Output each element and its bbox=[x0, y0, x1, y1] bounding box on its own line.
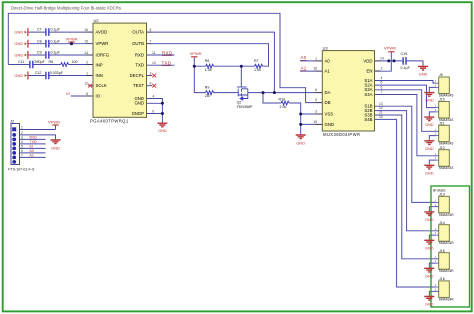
svg-text:R6: R6 bbox=[205, 59, 210, 63]
svg-text:4: 4 bbox=[21, 140, 23, 144]
svg-text:IO: IO bbox=[66, 92, 70, 96]
svg-text:GND: GND bbox=[296, 141, 305, 146]
svg-text:GND: GND bbox=[14, 41, 23, 46]
svg-text:SMA4S4S: SMA4S4S bbox=[439, 118, 454, 122]
svg-text:GND: GND bbox=[425, 170, 434, 175]
svg-text:GND: GND bbox=[51, 145, 60, 150]
svg-text:8: 8 bbox=[315, 88, 317, 92]
svg-text:MUX36D04IPWR: MUX36D04IPWR bbox=[323, 132, 360, 137]
svg-text:INN: INN bbox=[96, 73, 103, 78]
svg-text:15: 15 bbox=[313, 120, 317, 124]
svg-text:1.0k: 1.0k bbox=[254, 68, 261, 72]
svg-text:2.0k: 2.0k bbox=[280, 105, 287, 109]
svg-text:VDD: VDD bbox=[363, 58, 372, 63]
svg-text:INP: INP bbox=[96, 63, 103, 68]
svg-text:16: 16 bbox=[84, 28, 88, 32]
svg-text:C11: C11 bbox=[18, 60, 24, 64]
svg-text:0.1µF: 0.1µF bbox=[51, 28, 61, 32]
svg-text:C19: C19 bbox=[401, 52, 408, 56]
svg-text:2: 2 bbox=[21, 131, 23, 135]
svg-text:3: 3 bbox=[21, 136, 23, 140]
svg-text:RXD: RXD bbox=[30, 136, 38, 140]
svg-text:16: 16 bbox=[313, 67, 317, 71]
svg-text:2: 2 bbox=[381, 67, 383, 71]
svg-text:1.0k: 1.0k bbox=[205, 68, 212, 72]
svg-text:J10: J10 bbox=[439, 98, 445, 102]
svg-text:7: 7 bbox=[381, 90, 383, 94]
svg-text:11: 11 bbox=[152, 51, 156, 55]
svg-text:1: 1 bbox=[315, 57, 317, 61]
svg-text:A0: A0 bbox=[325, 58, 331, 63]
svg-text:J9: J9 bbox=[439, 73, 443, 77]
svg-text:GND: GND bbox=[419, 71, 428, 76]
svg-text:DECPL: DECPL bbox=[130, 73, 145, 78]
svg-text:DA: DA bbox=[325, 90, 331, 95]
svg-text:0.033µF: 0.033µF bbox=[50, 71, 64, 75]
svg-text:1: 1 bbox=[86, 71, 88, 75]
svg-text:12: 12 bbox=[84, 82, 88, 86]
svg-text:IO: IO bbox=[96, 93, 101, 98]
svg-text:SMA4S4S: SMA4S4S bbox=[439, 166, 454, 170]
svg-text:100: 100 bbox=[72, 60, 78, 64]
svg-text:6: 6 bbox=[381, 85, 383, 89]
svg-text:2: 2 bbox=[86, 60, 88, 64]
svg-text:5: 5 bbox=[21, 145, 23, 149]
svg-text:GND: GND bbox=[425, 273, 434, 278]
svg-text:5: 5 bbox=[150, 28, 152, 32]
svg-text:EN: EN bbox=[367, 68, 373, 73]
svg-text:14: 14 bbox=[84, 51, 88, 55]
svg-text:6: 6 bbox=[152, 109, 154, 113]
svg-text:SMA4S4R: SMA4S4R bbox=[439, 241, 455, 245]
svg-text:C7: C7 bbox=[37, 28, 42, 32]
svg-text:S4B: S4B bbox=[364, 117, 372, 122]
svg-text:U2: U2 bbox=[94, 18, 100, 23]
svg-text:TXD: TXD bbox=[162, 61, 172, 66]
svg-text:15: 15 bbox=[84, 40, 88, 44]
svg-text:TXD: TXD bbox=[135, 63, 144, 68]
svg-text:GND: GND bbox=[425, 146, 434, 151]
svg-text:3: 3 bbox=[315, 110, 317, 114]
svg-text:0.1µF: 0.1µF bbox=[401, 66, 411, 70]
svg-text:GND: GND bbox=[325, 122, 335, 127]
svg-text:GND: GND bbox=[158, 128, 167, 133]
svg-text:A1: A1 bbox=[301, 65, 307, 70]
svg-text:TEST: TEST bbox=[133, 83, 144, 88]
svg-text:VPWR: VPWR bbox=[48, 120, 60, 125]
svg-text:4: 4 bbox=[152, 94, 154, 98]
svg-text:287: 287 bbox=[205, 94, 211, 98]
svg-text:U3: U3 bbox=[323, 46, 329, 51]
svg-text:VPWR: VPWR bbox=[66, 37, 78, 42]
svg-text:VPWR: VPWR bbox=[384, 45, 396, 50]
svg-text:RXD: RXD bbox=[135, 52, 144, 57]
svg-text:J15: J15 bbox=[439, 249, 445, 253]
svg-text:S4A: S4A bbox=[364, 92, 372, 97]
svg-text:A0: A0 bbox=[301, 55, 307, 60]
svg-text:9: 9 bbox=[150, 82, 152, 86]
svg-text:C9: C9 bbox=[37, 51, 42, 55]
svg-text:GND: GND bbox=[425, 302, 434, 307]
svg-text:Direct-Drive Half-Bridge Multi: Direct-Drive Half-Bridge Multiplexing Fo… bbox=[11, 5, 121, 10]
svg-text:OUTA: OUTA bbox=[132, 30, 144, 35]
svg-text:0.1µF: 0.1µF bbox=[51, 39, 61, 43]
svg-text:SMA4S4S: SMA4S4S bbox=[439, 142, 454, 146]
svg-text:VPWR: VPWR bbox=[96, 41, 109, 46]
svg-text:R8: R8 bbox=[49, 60, 54, 64]
svg-text:OUTB: OUTB bbox=[132, 41, 144, 46]
svg-text:8: 8 bbox=[86, 92, 88, 96]
svg-text:J13: J13 bbox=[439, 193, 445, 197]
svg-text:GNDP: GNDP bbox=[132, 111, 145, 116]
svg-text:A1: A1 bbox=[325, 69, 331, 74]
svg-text:5: 5 bbox=[381, 81, 383, 85]
svg-text:DB: DB bbox=[325, 100, 331, 105]
svg-text:1: 1 bbox=[21, 126, 23, 130]
svg-text:FDN358P: FDN358P bbox=[237, 105, 253, 109]
svg-text:SMA4S4R: SMA4S4R bbox=[439, 297, 455, 301]
svg-text:10: 10 bbox=[152, 61, 156, 65]
svg-text:6: 6 bbox=[21, 149, 23, 153]
svg-text:J2: J2 bbox=[9, 119, 15, 123]
svg-text:GND: GND bbox=[14, 73, 23, 78]
svg-text:0.1µF: 0.1µF bbox=[51, 51, 61, 55]
svg-text:SMA4S4S: SMA4S4S bbox=[439, 94, 454, 98]
svg-text:SMA4S4R: SMA4S4R bbox=[439, 269, 455, 273]
svg-text:GND: GND bbox=[425, 98, 434, 103]
svg-text:VPWR: VPWR bbox=[190, 51, 202, 56]
svg-text:TXD: TXD bbox=[30, 140, 37, 144]
svg-text:PGA460TPWRQ1: PGA460TPWRQ1 bbox=[90, 118, 129, 123]
svg-text:GND: GND bbox=[425, 217, 434, 222]
svg-text:390µF: 390µF bbox=[35, 60, 46, 64]
svg-text:SCLK: SCLK bbox=[96, 83, 107, 88]
svg-text:9: 9 bbox=[315, 98, 317, 102]
svg-text:J11: J11 bbox=[439, 121, 444, 125]
svg-text:4: 4 bbox=[381, 76, 383, 80]
svg-text:3: 3 bbox=[150, 71, 152, 75]
svg-text:10: 10 bbox=[379, 115, 383, 119]
svg-text:VSS: VSS bbox=[325, 111, 334, 116]
svg-text:GND: GND bbox=[134, 101, 144, 106]
svg-text:C8: C8 bbox=[37, 39, 42, 43]
svg-text:GND: GND bbox=[14, 29, 23, 34]
svg-text:GND: GND bbox=[425, 122, 434, 127]
svg-text:C12: C12 bbox=[35, 71, 42, 75]
svg-text:R9: R9 bbox=[205, 86, 210, 90]
svg-text:J16: J16 bbox=[439, 277, 445, 281]
svg-text:A1: A1 bbox=[30, 154, 34, 158]
svg-text:J14: J14 bbox=[439, 221, 445, 225]
svg-text:12: 12 bbox=[379, 106, 383, 110]
svg-text:SMA4S4R: SMA4S4R bbox=[439, 213, 455, 217]
svg-text:GND: GND bbox=[14, 52, 23, 57]
svg-text:7: 7 bbox=[150, 40, 152, 44]
svg-text:IO: IO bbox=[30, 145, 34, 149]
svg-text:R7: R7 bbox=[254, 59, 259, 63]
svg-text:IORFG: IORFG bbox=[96, 52, 110, 57]
svg-text:FTS-107-01-F-S: FTS-107-01-F-S bbox=[8, 167, 35, 171]
svg-text:A0: A0 bbox=[30, 149, 34, 153]
svg-text:13: 13 bbox=[379, 102, 383, 106]
svg-text:AVDD: AVDD bbox=[96, 30, 108, 35]
svg-text:J12: J12 bbox=[439, 146, 445, 150]
svg-text:GND: GND bbox=[425, 245, 434, 250]
svg-text:14: 14 bbox=[380, 57, 384, 61]
svg-text:11: 11 bbox=[379, 111, 383, 115]
svg-text:7: 7 bbox=[21, 154, 23, 158]
svg-text:RXD: RXD bbox=[162, 50, 173, 55]
